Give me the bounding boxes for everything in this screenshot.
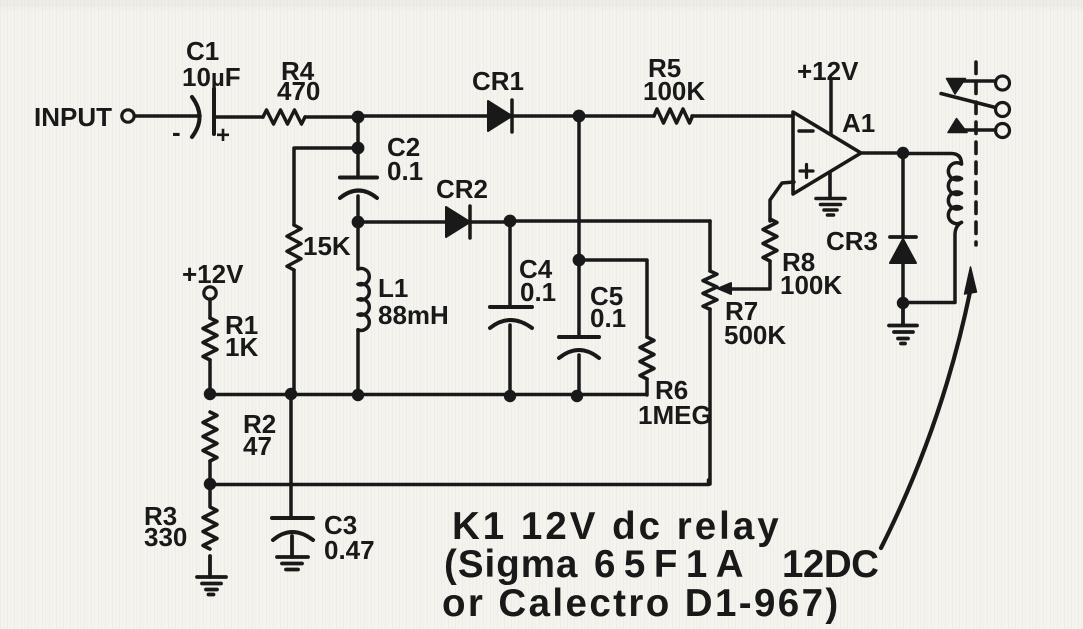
svg-text:+12V: +12V (797, 56, 859, 86)
wire node A to CR1 (358, 114, 488, 118)
svg-text:+: + (216, 122, 230, 149)
svg-text:INPUT: INPUT (34, 102, 112, 132)
capacitor C4 (490, 307, 532, 328)
wire node to C2 (356, 148, 360, 177)
svg-text:470: 470 (277, 76, 320, 106)
wire node E to R7 top (510, 219, 710, 223)
potentiometer R7 (703, 221, 731, 484)
wire node E to C4 (508, 221, 512, 307)
svg-text:100K: 100K (780, 270, 842, 300)
wire node B to R5 (579, 114, 654, 118)
node B (573, 110, 586, 123)
svg-text:CR1: CR1 (472, 66, 524, 96)
svg-text:or Calectro D1-967): or Calectro D1-967) (442, 582, 841, 625)
svg-text:500K: 500K (724, 320, 786, 350)
wire to 15K branch (294, 148, 358, 225)
resistor R2 (203, 412, 217, 461)
svg-text:65F1A: 65F1A (594, 543, 752, 586)
node E (504, 215, 517, 228)
wire C5 to bus (577, 355, 581, 396)
wire CR1 to node B (512, 114, 579, 118)
wire R4 to node A (305, 115, 358, 119)
input terminal (122, 110, 134, 122)
svg-text:K1 12V dc relay: K1 12V dc relay (452, 505, 782, 548)
wire node F to R6 (579, 260, 647, 337)
relay armature dashed line (974, 62, 978, 245)
svg-text:88mH: 88mH (378, 300, 449, 330)
node G (204, 478, 216, 490)
capacitor C5 (559, 337, 599, 358)
resistor R8 (763, 219, 777, 261)
+12V supply terminal (204, 287, 216, 299)
svg-text:CR2: CR2 (436, 174, 488, 204)
wire C2 to node D (356, 196, 360, 222)
svg-text:330: 330 (144, 522, 187, 552)
bus junction C3 (285, 388, 297, 400)
svg-text:+12V: +12V (182, 259, 244, 289)
bus junction L1 (352, 389, 364, 401)
feedback return wire (210, 480, 709, 485)
wire node B down to node F (577, 116, 581, 260)
svg-text:A1: A1 (842, 108, 875, 138)
wire R5 to op-amp (692, 114, 793, 118)
svg-text:1K: 1K (225, 332, 258, 362)
svg-text:-: - (172, 117, 181, 147)
diode CR2 (446, 206, 470, 238)
relay coil K1 (903, 154, 962, 303)
svg-text:100K: 100K (643, 76, 705, 106)
wire R7 wiper to R8 (728, 261, 770, 289)
svg-text:47: 47 (243, 431, 272, 461)
relay contact NO (948, 119, 1010, 138)
wire CR2 to node E (470, 220, 510, 224)
wire node F to C5 (577, 260, 581, 337)
wire input to C1 (135, 114, 201, 118)
+12V rail of op-amp (829, 80, 833, 134)
ground of C3 (277, 536, 308, 570)
node A (352, 111, 365, 124)
bus junction R1 (204, 388, 216, 400)
wire C1 to R4 (214, 115, 263, 119)
resistor R6 (640, 337, 654, 379)
resistor R5 (654, 109, 693, 123)
wire R2 to node G (208, 461, 212, 484)
resistor R1 (203, 318, 217, 360)
svg-text:L1: L1 (378, 273, 408, 303)
wire bus to C3 (289, 394, 293, 518)
capacitor C3 (272, 518, 313, 540)
svg-text:0.1: 0.1 (520, 277, 556, 307)
resistor 15K (287, 225, 301, 270)
resistor R4 (263, 110, 305, 124)
scan noise band (0, 0, 1083, 7)
wire R8 to op-amp plus input (770, 182, 794, 221)
svg-text:0.47: 0.47 (324, 535, 375, 565)
relay contact common (941, 94, 1010, 117)
wire R1 to bus (208, 360, 212, 394)
diode CR1 (488, 100, 512, 132)
node F (573, 254, 586, 267)
node below A (352, 142, 365, 155)
inductor L1 (358, 222, 369, 395)
ground of CR3 (889, 303, 917, 344)
ground of op-amp (816, 172, 845, 215)
svg-text:0.1: 0.1 (590, 303, 626, 333)
svg-text:10µF: 10µF (182, 62, 241, 92)
wire +12V to R1 (208, 299, 212, 318)
wire C4 to bus (508, 325, 512, 396)
wire op-amp output to node C (861, 151, 903, 155)
node H (897, 297, 909, 309)
relay contact NC (947, 76, 1010, 94)
svg-text:0.1: 0.1 (387, 156, 423, 186)
wire node A down (356, 117, 360, 148)
node D (352, 216, 365, 229)
resistor R3 (203, 484, 217, 549)
svg-text:(Sigma: (Sigma (444, 543, 578, 586)
op-amp A1 (793, 112, 861, 194)
ground of R3 (197, 556, 226, 595)
svg-text:1MEG: 1MEG (638, 400, 712, 430)
bus wire (210, 393, 645, 397)
wire 15K to bus (292, 270, 296, 394)
bus junction C4 (504, 390, 516, 402)
svg-text:CR3: CR3 (826, 226, 878, 256)
bus junction C5 (571, 390, 583, 402)
diode CR3 (890, 153, 916, 303)
wire node D to CR2 (358, 220, 446, 224)
node C (897, 147, 909, 159)
svg-text:12DC: 12DC (782, 543, 878, 586)
svg-text:15K: 15K (303, 231, 351, 261)
capacitor C2 (340, 178, 377, 199)
callout arrow to relay (881, 267, 977, 548)
capacitor C1 (192, 89, 214, 137)
wire R6 to bus (645, 379, 649, 395)
